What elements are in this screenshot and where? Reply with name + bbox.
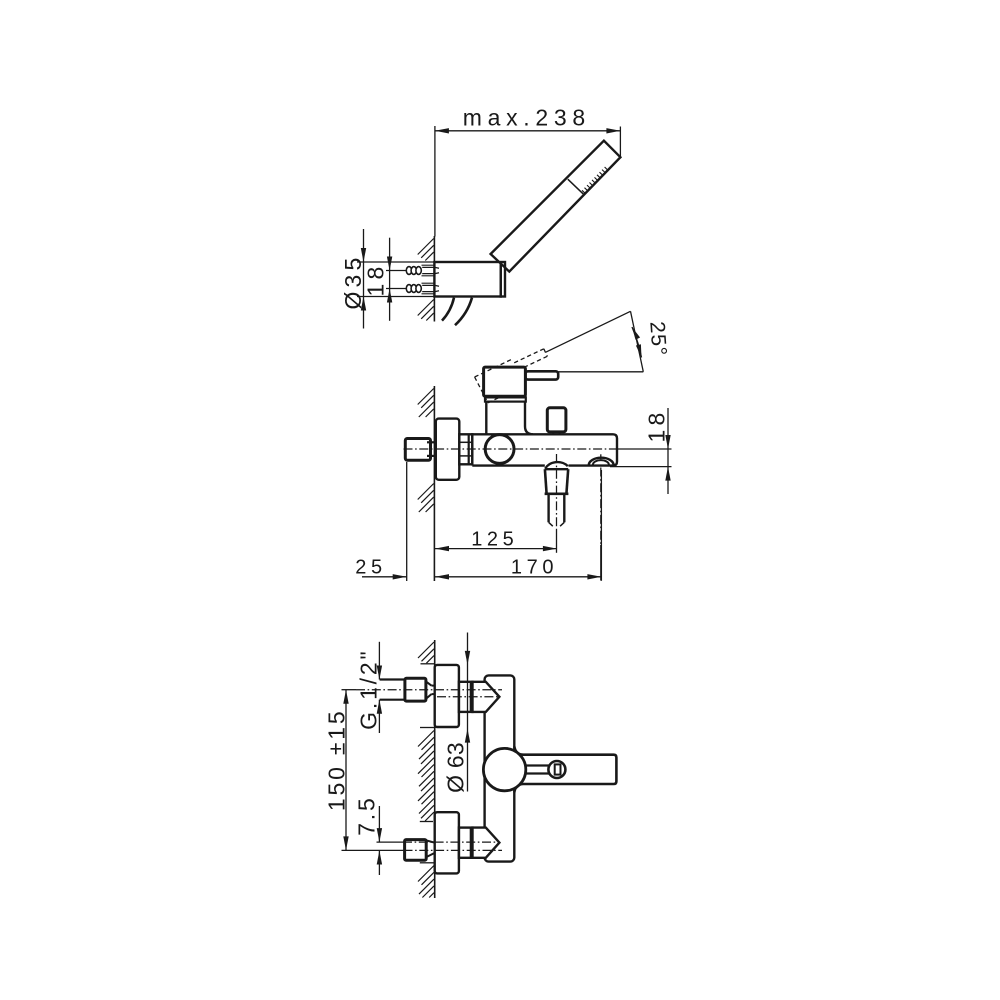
wall hatching (top view lower) — [418, 300, 434, 316]
handle stem circle — [548, 761, 565, 778]
dim 75 line — [378, 806, 380, 842]
nipple bottom (front view) — [459, 828, 473, 858]
pipe axis bottom — [342, 849, 404, 851]
dim max.238 extension right — [619, 127, 621, 159]
hand shower body — [491, 141, 621, 272]
svg-text:G.1/2": G.1/2" — [355, 649, 381, 730]
nipple top (front view) — [459, 682, 473, 712]
dim 170 line — [435, 576, 601, 578]
shower bracket body — [434, 262, 500, 297]
wall hatching (side upper) — [418, 389, 434, 405]
dim Ø35 line — [363, 229, 365, 329]
svg-text:18: 18 — [644, 409, 670, 443]
cartridge sphere (front view) — [483, 748, 525, 790]
svg-text:150 ±15: 150 ±15 — [323, 709, 349, 812]
svg-text:25°: 25° — [645, 321, 670, 358]
hand shower head separator — [568, 179, 583, 194]
handle lever (side view) — [525, 371, 558, 379]
cone top (front view) — [473, 682, 500, 712]
svg-text:125: 125 — [471, 528, 518, 550]
aerator centerline — [600, 468, 602, 546]
handle column — [486, 402, 533, 434]
screw anchor S1 (top) — [406, 265, 439, 276]
wall hatching (front middle) — [418, 731, 434, 747]
wall flange top (front view) — [435, 665, 459, 727]
spout centerline — [556, 454, 558, 530]
inlet nut (side view) — [405, 439, 430, 461]
mixer body (side view) — [472, 434, 617, 465]
dim 25 line — [362, 576, 407, 578]
inlet neck (side view) — [427, 441, 436, 443]
dim 18 line — [389, 238, 391, 321]
inlet nut bottom (front view) — [405, 840, 427, 861]
handle rotated position (dashed) — [475, 377, 488, 403]
handle body (side view) — [484, 367, 526, 396]
aerator dome — [589, 458, 614, 466]
cone bottom (front view) — [473, 828, 500, 858]
dim 25deg arc — [632, 327, 642, 358]
wall cut lines (front view) — [421, 663, 435, 665]
dim 170 extension right — [600, 470, 602, 581]
screw anchor S2 (bottom) — [406, 283, 439, 294]
dim 150 line — [345, 690, 347, 851]
wall flange bottom (front view) — [435, 812, 459, 873]
svg-text:7.5: 7.5 — [354, 795, 380, 835]
dim 25 extension — [406, 462, 408, 581]
connection nipple (side view) — [459, 434, 472, 464]
dim Ø35 extension lines — [357, 261, 434, 263]
handle bar (front view) — [514, 746, 616, 792]
dim 25deg horizontal reference — [559, 371, 644, 373]
wall hatching (top view upper) — [418, 239, 434, 255]
wall hatching (front upper) — [418, 642, 434, 658]
pipe axis top — [342, 689, 357, 691]
diverter knob — [547, 408, 566, 432]
cone axis bottom — [377, 841, 404, 843]
cartridge circle — [485, 435, 514, 464]
inlet neck bottom (front view) — [426, 840, 435, 842]
wall face line (side view) — [433, 386, 435, 581]
dim 25deg ray right — [631, 311, 644, 372]
dim max.238 extension left — [434, 126, 436, 237]
dim max.238 line — [435, 130, 621, 132]
shower bracket end cap — [501, 262, 505, 297]
svg-text:170: 170 — [511, 556, 558, 578]
hand shower knurling — [582, 190, 585, 193]
inlet neck top (front view) — [426, 681, 432, 685]
dim 63 line — [467, 633, 469, 792]
dim 25deg ray to rotated lever — [546, 311, 631, 352]
svg-text:18: 18 — [362, 263, 388, 297]
mixer centerline (side) — [404, 448, 619, 450]
inlet nut top (front view) — [405, 678, 426, 701]
wall face line (top view) — [433, 236, 435, 322]
cone axis top — [437, 696, 500, 698]
dim 18r line — [667, 408, 669, 494]
inlet pipe top (front view) — [380, 678, 406, 680]
wall hatching (front lower) — [418, 866, 434, 882]
wall flange (side view) — [436, 419, 460, 480]
svg-text:max.238: max.238 — [463, 105, 591, 131]
handle collar — [485, 397, 526, 401]
dim 125 line — [435, 548, 557, 550]
handle stem (front view) — [525, 764, 557, 766]
handle stem key — [555, 764, 561, 774]
dim G12 line — [378, 642, 380, 680]
wall hatching (side lower) — [418, 484, 434, 500]
tub spout — [545, 462, 568, 469]
svg-text:25: 25 — [355, 556, 386, 578]
dim 18r extension lines — [618, 448, 672, 450]
dim 18 screw ticks — [386, 270, 406, 272]
mixer body slab (front view) — [485, 675, 515, 861]
svg-text:Ø 63: Ø 63 — [442, 742, 468, 793]
wall face line (front view) — [434, 640, 436, 898]
shower hose — [442, 298, 454, 321]
